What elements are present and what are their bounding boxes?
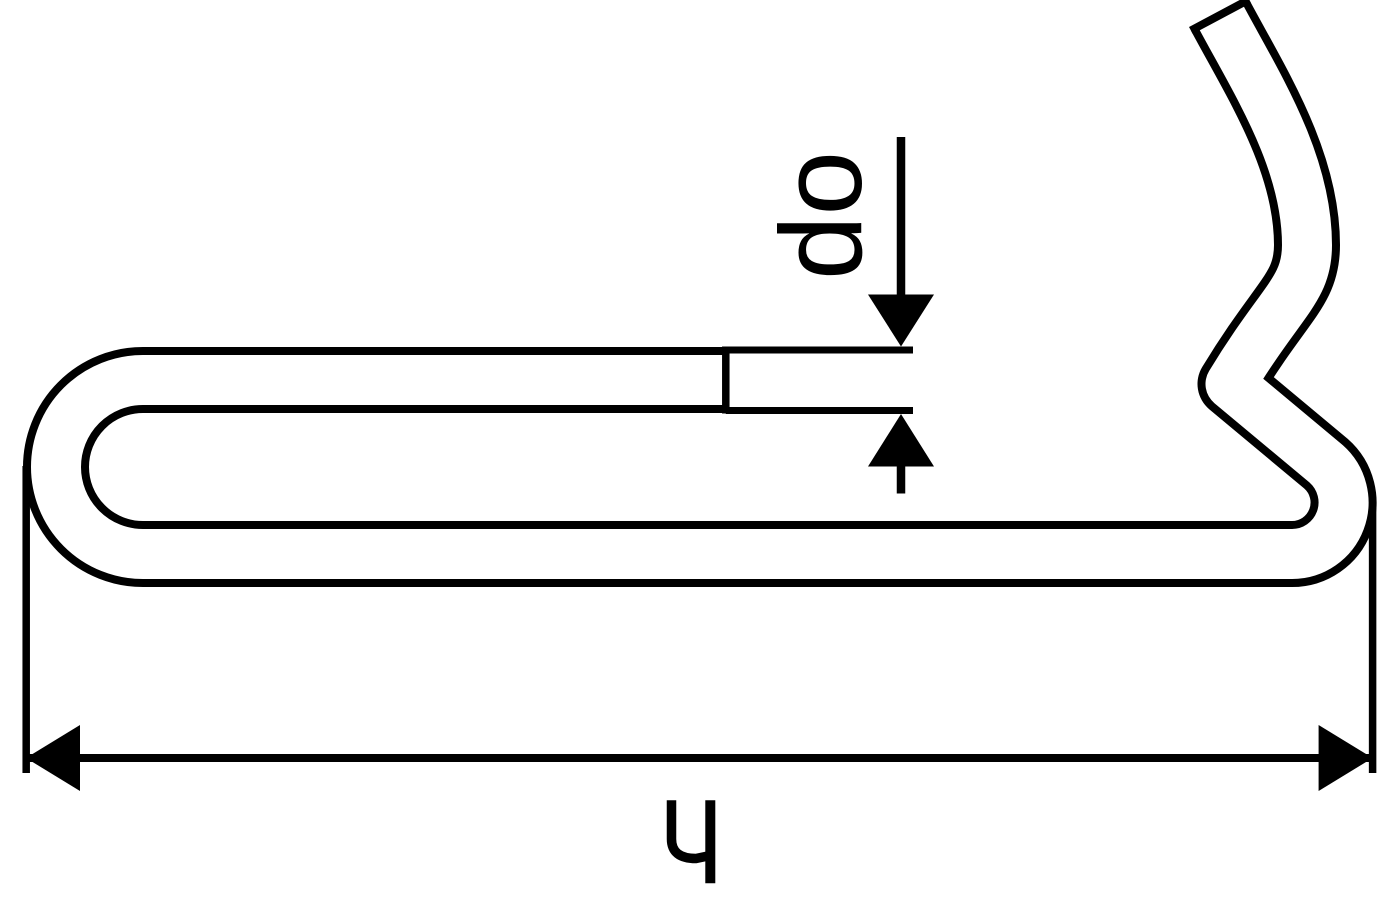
wire clip body (outer black) [56, 15, 1344, 554]
dimension do: upper dimension line [897, 137, 906, 300]
dimension ч: right arrowhead [1319, 725, 1373, 791]
wire end face (top angled cut) [1191, 0, 1249, 31]
dimension ч: left extension line [22, 466, 30, 773]
wire clip body (inner white) [56, 15, 1344, 554]
dimension do: up arrowhead [868, 414, 934, 467]
dimension ч: left arrowhead [26, 725, 80, 791]
dimension ч: right extension line [1369, 507, 1377, 773]
dimension ч: dimension line [28, 754, 1371, 762]
dimension do: top extension line [726, 347, 913, 354]
dimension do: lower tail line [897, 462, 906, 494]
wire end face (top strand square cut) [722, 347, 730, 414]
dimension do: down arrowhead [868, 295, 934, 347]
svg-text:do: do [756, 151, 886, 280]
dimension ч: label "ч" drawn as path [672, 800, 711, 858]
dimension do: bottom extension line [726, 407, 913, 414]
